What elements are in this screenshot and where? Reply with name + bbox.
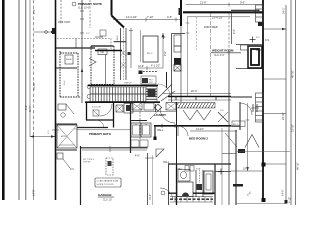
svg-text:WEIGHT ROOM: WEIGHT ROOM xyxy=(212,49,234,53)
wall x181 top xyxy=(180,0,182,26)
shoe box xyxy=(65,55,73,64)
primary suite east wall xyxy=(111,0,113,16)
svg-text:OFC: OFC xyxy=(149,82,154,84)
north dim line xyxy=(186,4,263,6)
vanity xyxy=(178,170,190,182)
svg-text:CLG: 10'-0": CLG: 10'-0" xyxy=(78,8,90,10)
svg-text:4'-1 1/2": 4'-1 1/2" xyxy=(151,65,160,68)
door swings great room xyxy=(158,84,172,98)
svg-text:4'-10": 4'-10" xyxy=(289,197,292,203)
pocket strip xyxy=(195,170,197,197)
east ladder window top xyxy=(256,5,264,22)
wall x171.5 xyxy=(171,34,173,103)
dim text 4-6 xyxy=(175,18,177,22)
property dash line xyxy=(33,0,35,137)
shower2 xyxy=(204,171,213,194)
bath south wall xyxy=(168,192,177,194)
bedroom2 door arc xyxy=(178,126,188,136)
center dim line xyxy=(187,16,189,96)
svg-text:46'-10": 46'-10" xyxy=(291,70,295,78)
svg-text:5'x8': 5'x8' xyxy=(196,169,201,171)
svg-text:4'-6": 4'-6" xyxy=(167,15,172,19)
svg-text:SHOE: SHOE xyxy=(66,59,72,61)
linen boxlet xyxy=(128,52,131,55)
dim arrow right mid2 xyxy=(264,113,286,115)
closet door circles xyxy=(87,85,91,89)
cross tick xyxy=(162,36,166,38)
bath2 north wall xyxy=(168,163,231,165)
pwdr room xyxy=(58,104,66,110)
closet wall xyxy=(56,47,96,49)
tub2 xyxy=(177,182,193,197)
bath walls dashed xyxy=(90,46,92,86)
svg-text:4'-6": 4'-6" xyxy=(135,155,140,158)
svg-text:6'-2": 6'-2" xyxy=(86,33,91,35)
svg-text:W.I.C.: W.I.C. xyxy=(233,124,239,126)
svg-text:3'-0": 3'-0" xyxy=(32,9,36,14)
svg-text:24'-10": 24'-10" xyxy=(281,112,285,120)
center walls xyxy=(130,102,132,153)
washer dryer xyxy=(131,123,141,137)
right dimension line A xyxy=(285,5,287,203)
svg-text:BED ROOM 2: BED ROOM 2 xyxy=(189,137,208,141)
vanity box xyxy=(100,30,106,36)
mud bench xyxy=(131,140,139,147)
right mid area walls xyxy=(239,102,241,130)
svg-text:14'-4 1/2": 14'-4 1/2" xyxy=(126,15,137,19)
svg-text:W.I.C.: W.I.C. xyxy=(147,53,153,55)
door triangle xyxy=(89,58,96,66)
plus marker xyxy=(250,39,256,41)
svg-text:14'-0": 14'-0" xyxy=(281,189,285,196)
svg-text:D.S.: D.S. xyxy=(70,169,75,171)
svg-text:21'-4 1/2": 21'-4 1/2" xyxy=(212,16,223,20)
stairs bottom wall xyxy=(85,101,160,103)
angled wall xyxy=(112,16,125,28)
svg-text:14'-10": 14'-10" xyxy=(196,128,204,131)
svg-text:2668 CSMT: 2668 CSMT xyxy=(58,22,71,24)
dim arrow upper-left xyxy=(34,31,55,33)
svg-text:LAUNDRY: LAUNDRY xyxy=(154,114,166,117)
svg-text:22'-0": 22'-0" xyxy=(191,90,197,93)
svg-text:9'-0": 9'-0" xyxy=(240,1,245,5)
left black border bar xyxy=(2,0,5,200)
dim arrow right mid1 xyxy=(264,78,286,80)
kitchen counters bottom xyxy=(81,147,148,149)
left extension line 1 xyxy=(18,0,20,200)
svg-text:GYP BD: GYP BD xyxy=(83,162,91,164)
svg-text:GARAGE: GARAGE xyxy=(98,193,112,197)
wic box xyxy=(143,36,158,62)
svg-text:9'-8": 9'-8" xyxy=(164,51,167,56)
svg-text:12'-6": 12'-6" xyxy=(138,65,144,68)
svg-text:LINEN: LINEN xyxy=(117,35,119,42)
svg-text:SLOPE TO DOOR: SLOPE TO DOOR xyxy=(97,184,115,186)
wall window mark xyxy=(179,8,182,15)
svg-text:PRIMARY BATH: PRIMARY BATH xyxy=(89,132,111,136)
svg-text:21'-6": 21'-6" xyxy=(200,1,207,5)
hall wall xyxy=(114,41,127,43)
hall west wall xyxy=(168,164,170,205)
bath labels xyxy=(185,166,189,172)
bath west wall xyxy=(176,165,178,205)
porch steps xyxy=(170,196,213,198)
svg-text:CLG: 10': CLG: 10' xyxy=(103,200,113,202)
svg-text:24'-1": 24'-1" xyxy=(282,7,286,14)
svg-text:46'-10": 46'-10" xyxy=(296,162,300,170)
svg-text:TUB: TUB xyxy=(100,52,105,54)
appliance stack xyxy=(174,58,181,65)
shower divider xyxy=(105,55,107,84)
garage right line xyxy=(147,153,149,205)
hall door xyxy=(161,191,165,195)
svg-text:16R UP: 16R UP xyxy=(124,83,132,85)
bifold doors xyxy=(183,110,211,120)
door jamb xyxy=(75,39,77,49)
dim ext line xyxy=(221,128,223,205)
window jamb mark xyxy=(52,28,55,34)
wall stub right xyxy=(231,96,252,98)
fireplace xyxy=(248,46,262,68)
diamond door xyxy=(218,112,228,122)
left dimension line 3 xyxy=(29,0,31,137)
bath east wall xyxy=(214,164,216,205)
stairs center rail xyxy=(90,93,146,95)
window symbol xyxy=(252,104,254,112)
mid wall below weight room xyxy=(168,96,231,98)
wall stub xyxy=(215,171,231,173)
svg-text:9'-0": 9'-0" xyxy=(233,29,236,34)
dim arrow lower-left xyxy=(30,136,55,138)
downspout callout xyxy=(57,153,63,159)
svg-text:5'-0 CLR: 5'-0 CLR xyxy=(92,107,101,109)
pocket office xyxy=(130,28,132,68)
note box xyxy=(95,178,121,187)
svg-text:2-CAR GARAGE SLAB: 2-CAR GARAGE SLAB xyxy=(97,180,119,183)
east exterior wall xyxy=(262,0,264,202)
svg-text:10'-9": 10'-9" xyxy=(243,168,249,171)
svg-text:D.S.: D.S. xyxy=(265,39,270,42)
lower right nodes xyxy=(262,163,266,167)
ceiling break dashed xyxy=(57,38,111,40)
shower X box xyxy=(57,125,77,148)
dim arrow right top xyxy=(264,28,286,30)
entry closet cabinets xyxy=(155,104,162,111)
svg-text:4030 FIXED: 4030 FIXED xyxy=(204,26,218,29)
svg-text:8'-2": 8'-2" xyxy=(24,105,28,110)
dim line interior x82 xyxy=(81,0,83,103)
wc below xyxy=(96,120,104,128)
stairs top wall xyxy=(88,84,158,86)
svg-text:CLG: 9'-0": CLG: 9'-0" xyxy=(214,55,225,57)
svg-text:R+S: R+S xyxy=(64,80,66,85)
bottom right hline xyxy=(236,203,286,205)
svg-text:11'-4": 11'-4" xyxy=(28,106,32,112)
stairs treads xyxy=(90,87,146,102)
hall label xyxy=(156,149,164,157)
attic access xyxy=(238,149,245,153)
right dimension line B xyxy=(290,0,292,205)
svg-text:7'-10": 7'-10" xyxy=(147,15,154,19)
east ladder window mid xyxy=(256,93,264,122)
dim text kitchen xyxy=(146,66,148,70)
hall dim line xyxy=(113,19,181,21)
primary bath room xyxy=(86,103,88,120)
svg-text:31'-10": 31'-10" xyxy=(32,82,36,90)
entry wall xyxy=(154,125,231,127)
east wall line xyxy=(228,13,230,51)
west exterior wall xyxy=(55,0,57,200)
bath tub xyxy=(98,49,107,55)
svg-text:24'-8": 24'-8" xyxy=(32,189,36,196)
fireplace niche walls xyxy=(236,44,263,46)
stairs landing xyxy=(146,86,157,102)
svg-text:ATTIC: ATTIC xyxy=(61,135,67,138)
centerline dash xyxy=(210,13,212,96)
svg-text:HALL: HALL xyxy=(157,129,164,132)
closet top right shelves xyxy=(231,9,259,11)
svg-text:18'-0": 18'-0" xyxy=(149,194,152,200)
toilet2 xyxy=(197,184,203,190)
garage west wall xyxy=(80,146,82,205)
closet dashed xyxy=(60,0,62,24)
cabinet top xyxy=(172,33,186,35)
wall x236 lower xyxy=(235,130,237,205)
post dashed xyxy=(106,158,113,175)
hline lower right xyxy=(236,151,290,153)
left extension line 2 xyxy=(25,0,27,200)
dashed line x90 xyxy=(89,0,91,28)
north wall great room xyxy=(183,11,263,13)
svg-text:31'-10": 31'-10" xyxy=(291,124,295,132)
